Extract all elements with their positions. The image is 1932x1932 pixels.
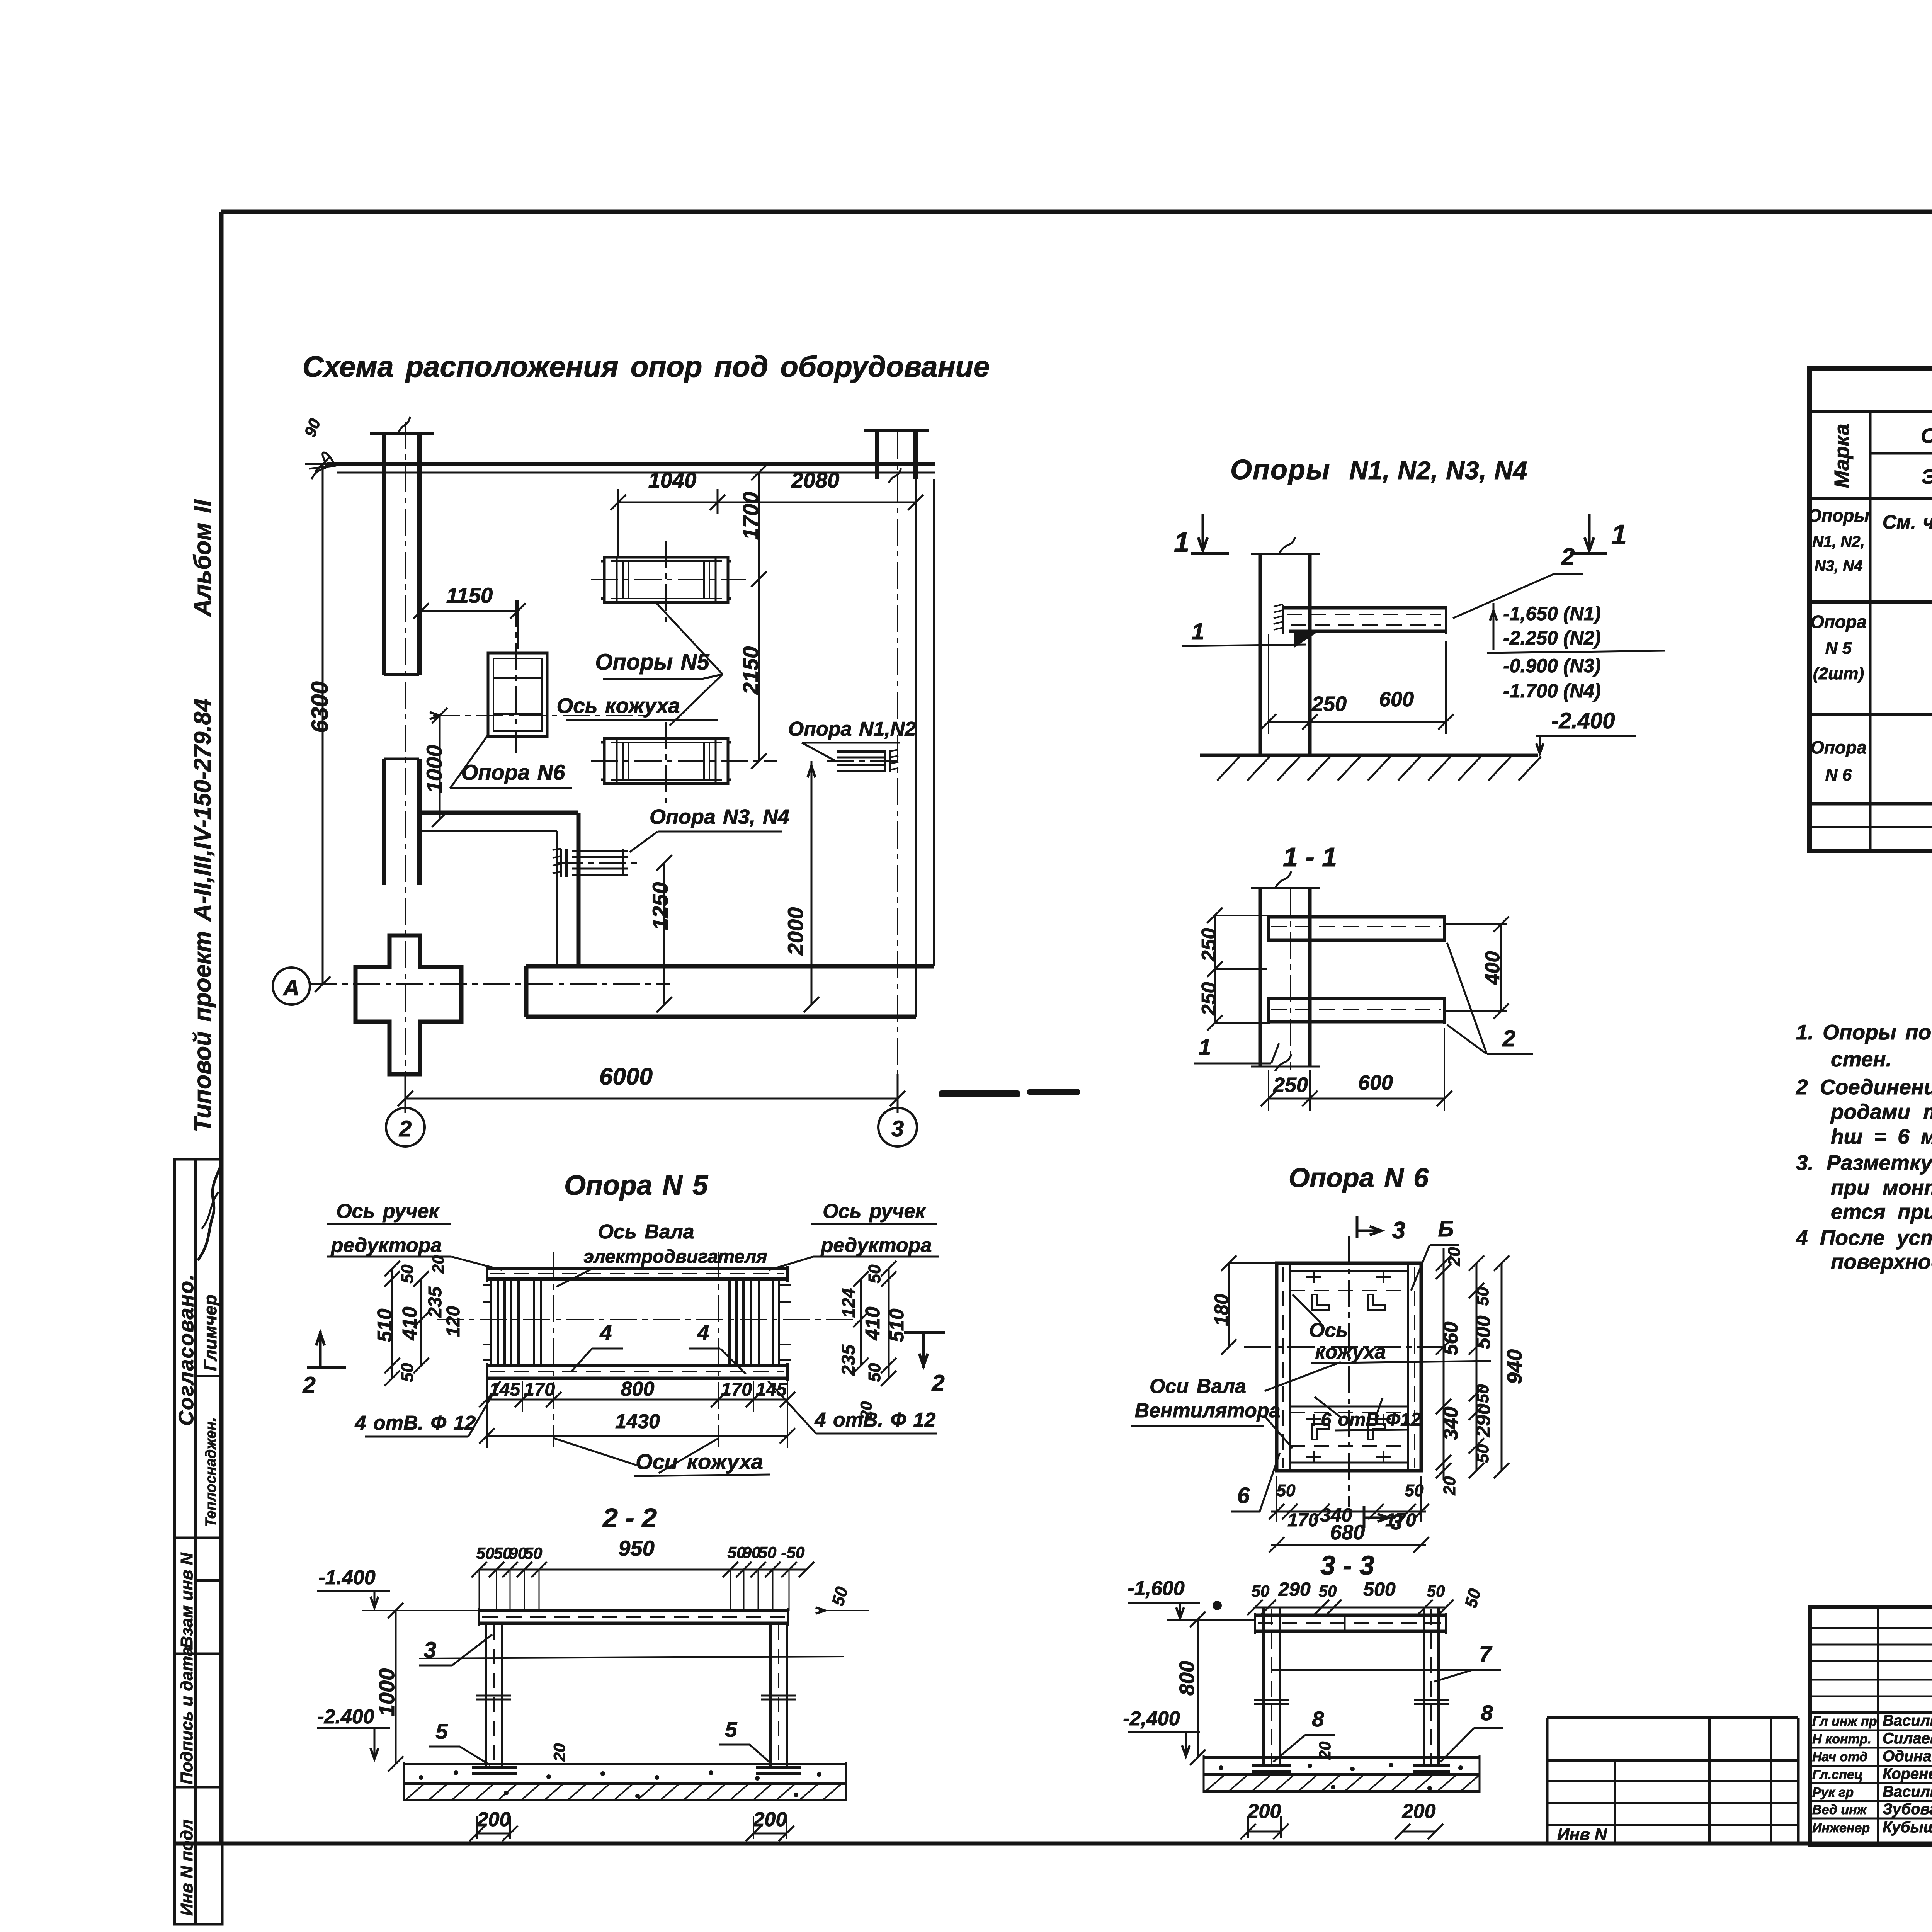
plan axis circle 2 — [386, 1108, 425, 1146]
plan dim 6000 horizontal — [405, 1098, 898, 1100]
sect3-3 hatch band — [1204, 1790, 1480, 1793]
svg-text:Марка: Марка — [1830, 424, 1854, 488]
svg-text:3 - 3: 3 - 3 — [1320, 1550, 1374, 1580]
svg-text:50: 50 — [398, 1264, 417, 1283]
svg-text:50: 50 — [1252, 1582, 1270, 1600]
svg-text:Гл.спец: Гл.спец — [1812, 1767, 1863, 1782]
plan left pilaster wall — [382, 434, 386, 675]
svg-text:Вед инж: Вед инж — [1812, 1803, 1867, 1817]
svg-text:См. чертеж: См. чертеж — [1883, 511, 1932, 533]
svg-text:N3, N4: N3, N4 — [1815, 558, 1863, 575]
svg-text:Опора N6: Опора N6 — [461, 760, 565, 784]
N6 section mark 3 bottom — [1363, 1506, 1366, 1528]
sect2-2 dim 200 left — [477, 1833, 510, 1835]
table outer border — [1810, 369, 1932, 851]
N5 right angle column — [728, 1279, 731, 1366]
sect2-2 hatch band — [404, 1799, 846, 1801]
svg-text:Гл инж пр: Гл инж пр — [1812, 1714, 1877, 1729]
svg-text:2150: 2150 — [738, 646, 763, 695]
svg-text:1 - 1: 1 - 1 — [1283, 842, 1337, 872]
sect1-1 center axis — [1290, 889, 1291, 1070]
table title row — [1810, 410, 1932, 413]
sect2-2 right leg — [769, 1623, 772, 1767]
svg-text:8: 8 — [1481, 1701, 1493, 1725]
N6 section mark 3 top — [1356, 1216, 1359, 1238]
svg-text:-2,400: -2,400 — [1123, 1708, 1180, 1730]
svg-text:Зубова: Зубова — [1883, 1801, 1932, 1818]
detail N1-4 wall — [1259, 554, 1262, 755]
svg-text:2 - 2: 2 - 2 — [602, 1503, 657, 1533]
svg-text:-2.250 (N2): -2.250 (N2) — [1503, 627, 1601, 649]
svg-text:170: 170 — [721, 1379, 752, 1400]
svg-text:Опоры: Опоры — [1808, 505, 1869, 526]
sect3-3 floor slab — [1204, 1756, 1480, 1759]
plan dim 1040 2080 — [618, 502, 916, 503]
detail N1-4 dim 250 600 — [1269, 721, 1446, 723]
svg-text:Опора N3, N4: Опора N3, N4 — [650, 805, 789, 828]
svg-text:Ось: Ось — [1309, 1319, 1348, 1342]
sect1-1 dims 250 250 — [1214, 915, 1216, 1023]
svg-text:Оси кожуха: Оси кожуха — [636, 1449, 763, 1474]
title block signature rows — [1810, 1730, 1932, 1731]
plan dim 1250 vertical — [663, 863, 665, 1005]
N6 top inner member — [1290, 1270, 1408, 1272]
svg-text:кожуха: кожуха — [1315, 1341, 1386, 1363]
svg-text:200: 200 — [477, 1808, 511, 1831]
svg-text:290: 290 — [1278, 1578, 1311, 1600]
svg-text:400: 400 — [1481, 951, 1504, 985]
svg-text:Рук гр: Рук гр — [1812, 1785, 1854, 1800]
svg-text:4 отВ. Ф 12: 4 отВ. Ф 12 — [355, 1412, 476, 1434]
svg-text:-2.400: -2.400 — [1551, 708, 1615, 733]
svg-text:800: 800 — [621, 1378, 655, 1400]
svg-text:3: 3 — [1390, 1510, 1402, 1534]
svg-text:поверхности окрасить масляно: поверхности окрасить масляной краской за… — [1831, 1250, 1932, 1274]
svg-text:Б: Б — [1438, 1216, 1454, 1242]
N6 dim 680 — [1271, 1544, 1426, 1546]
svg-text:редуктора: редуктора — [330, 1234, 442, 1257]
plan label Ось кожуха and axis — [433, 715, 647, 716]
svg-text:50: 50 — [1277, 1481, 1296, 1500]
svg-text:510: 510 — [886, 1309, 908, 1342]
plan fan support unit Опоры N5 lower — [604, 738, 728, 784]
svg-text:N 5: N 5 — [1825, 639, 1852, 658]
title block upper empty rows — [1810, 1627, 1932, 1629]
sect2-2 dim 200 right — [753, 1833, 786, 1835]
svg-text:4: 4 — [599, 1320, 612, 1345]
sect2-2 dim 1000 — [395, 1611, 397, 1764]
plan bracket Опора N3,N4 — [560, 849, 562, 877]
svg-text:1000: 1000 — [422, 745, 446, 793]
N5 unit top band — [487, 1267, 787, 1270]
N5 dims left stack — [391, 1269, 393, 1378]
svg-text:при монтаже оборудования . Д: при монтаже оборудования . Диаметр отвер… — [1831, 1175, 1932, 1199]
svg-text:1700: 1700 — [738, 492, 763, 540]
svg-text:6: 6 — [1237, 1483, 1250, 1508]
plan top wall lines — [327, 462, 935, 466]
plan axis circle 3 — [878, 1108, 917, 1146]
sect3-3 top dim row — [1255, 1607, 1446, 1609]
svg-text:20: 20 — [429, 1255, 447, 1274]
sheet frame border — [221, 210, 1932, 214]
svg-text:Инженер: Инженер — [1812, 1821, 1870, 1835]
plan axis circle A — [273, 968, 310, 1005]
svg-text:510: 510 — [374, 1309, 396, 1342]
svg-text:250: 250 — [1273, 1073, 1308, 1097]
plan dim 6300 vertical — [322, 464, 324, 984]
svg-text:4: 4 — [697, 1320, 709, 1345]
svg-text:50: 50 — [865, 1264, 884, 1283]
svg-text:Согласовано.: Согласовано. — [175, 1274, 198, 1426]
svg-text:170: 170 — [524, 1379, 555, 1400]
svg-text:940: 940 — [1503, 1349, 1526, 1384]
svg-text:8: 8 — [1312, 1707, 1324, 1731]
svg-text:200: 200 — [1247, 1800, 1281, 1823]
plan fan N5 upper axis — [591, 579, 746, 580]
svg-text:Эскиз: Эскиз — [1922, 465, 1932, 488]
plan left wall lower segment — [382, 759, 386, 885]
sect2-2 beam — [479, 1609, 788, 1612]
svg-text:(2шт): (2шт) — [1813, 664, 1864, 683]
plan axis line A horizontal — [310, 983, 670, 985]
svg-text:50: 50 — [1427, 1582, 1445, 1600]
plan fan support unit Опоры N5 upper — [604, 557, 728, 602]
svg-text:500: 500 — [1363, 1578, 1396, 1600]
svg-text:N1, N2, N3, N4: N1, N2, N3, N4 — [1349, 456, 1528, 485]
svg-text:500: 500 — [1472, 1316, 1495, 1349]
svg-text:50: 50 — [865, 1363, 884, 1382]
title block outer border — [1810, 1607, 1932, 1844]
svg-text:2000: 2000 — [783, 907, 808, 956]
svg-text:50: 50 — [524, 1544, 543, 1562]
sidebar box grid — [175, 1159, 222, 1924]
svg-text:950: 950 — [618, 1536, 654, 1560]
svg-text:Одинаков: Одинаков — [1883, 1748, 1932, 1765]
svg-text:680: 680 — [1330, 1521, 1365, 1544]
plan dim 1150 — [421, 610, 518, 612]
sect1-1 dim 400 — [1500, 924, 1502, 1011]
plan right pilaster wall — [875, 430, 879, 479]
plan unit N6 axes — [515, 600, 517, 753]
N6 bottom dims — [1271, 1511, 1426, 1513]
svg-text:6300: 6300 — [307, 681, 333, 733]
svg-text:20: 20 — [1440, 1476, 1459, 1495]
plan fan N5 lower axis — [591, 760, 777, 762]
sect2-2 base plates — [472, 1766, 517, 1769]
N6 bottom inner member — [1290, 1462, 1408, 1464]
ink smear mark — [939, 1090, 1020, 1097]
svg-text:Опора N1,N2: Опора N1,N2 — [788, 718, 916, 740]
plan unit Опора N6 box — [488, 653, 547, 736]
detail N1-4 bracket channel — [1283, 606, 1446, 610]
svg-text:Типовой проект А-ІІ,ІІІ,ІV-1: Типовой проект А-ІІ,ІІІ,ІV-150-279.84 — [189, 698, 216, 1132]
svg-text:290: 290 — [1472, 1404, 1495, 1438]
N6 box outline — [1277, 1263, 1421, 1471]
svg-text:3: 3 — [891, 1116, 904, 1141]
svg-text:-50: -50 — [781, 1543, 805, 1561]
plan axis line 3 vertical — [897, 432, 898, 1106]
sect2-2 floor slab — [404, 1763, 846, 1765]
N5 centerlines — [553, 1252, 554, 1447]
svg-text:стен.: стен. — [1831, 1047, 1892, 1071]
svg-text:N1, N2,: N1, N2, — [1812, 533, 1865, 550]
svg-text:электродвигателя: электродвигателя — [583, 1247, 767, 1267]
svg-text:Опора: Опора — [1810, 737, 1867, 757]
N5 bottom dim row 2 — [487, 1435, 787, 1437]
svg-text:Оси Вала: Оси Вала — [1150, 1375, 1246, 1398]
svg-text:170: 170 — [1287, 1510, 1318, 1531]
svg-text:340: 340 — [1440, 1407, 1462, 1440]
svg-text:7: 7 — [1479, 1641, 1493, 1667]
svg-text:Опора N 6: Опора N 6 — [1289, 1163, 1429, 1193]
N5 bottom dim row 1 — [487, 1399, 787, 1401]
svg-text:50: 50 — [1473, 1287, 1492, 1306]
svg-text:600: 600 — [1379, 688, 1414, 711]
svg-text:2: 2 — [1502, 1026, 1515, 1051]
svg-text:-2.400: -2.400 — [317, 1706, 374, 1728]
svg-text:180: 180 — [1211, 1294, 1232, 1326]
svg-text:410: 410 — [862, 1307, 884, 1341]
svg-text:6000: 6000 — [599, 1063, 653, 1090]
svg-text:5: 5 — [435, 1719, 448, 1743]
svg-text:1: 1 — [1199, 1035, 1211, 1060]
svg-text:1040: 1040 — [648, 468, 697, 492]
svg-text:1150: 1150 — [446, 583, 493, 607]
svg-text:90: 90 — [743, 1543, 761, 1561]
svg-text:Кубышкина: Кубышкина — [1883, 1819, 1932, 1836]
svg-text:Опоры N5: Опоры N5 — [595, 650, 709, 675]
table header columns — [1869, 411, 1872, 851]
svg-text:Инв N подл: Инв N подл — [177, 1820, 196, 1916]
svg-text:Кореневский: Кореневский — [1883, 1765, 1932, 1782]
svg-text:4 После установки опор под: 4 После установки опор под вентиляторы м… — [1796, 1226, 1932, 1250]
svg-text:Глимчер: Глимчер — [200, 1294, 220, 1371]
svg-text:1000: 1000 — [374, 1668, 399, 1717]
svg-text:1: 1 — [1611, 519, 1627, 550]
N6 axes — [1348, 1236, 1350, 1507]
svg-text:Силаева: Силаева — [1883, 1730, 1932, 1747]
svg-text:ется при получении оборудов: ется при получении оборудования. — [1831, 1200, 1932, 1224]
plan axis line 2 vertical — [405, 422, 406, 1106]
svg-text:Схема расположения опор под: Схема расположения опор под оборудование — [303, 350, 990, 383]
svg-text:Нач отд: Нач отд — [1812, 1750, 1867, 1764]
plan dim 1000 vertical — [439, 716, 441, 819]
svg-text:-1,600: -1,600 — [1128, 1577, 1185, 1600]
svg-text:20: 20 — [1316, 1742, 1334, 1760]
elevation tick — [1493, 603, 1495, 650]
N5 unit bottom band — [487, 1364, 787, 1367]
svg-text:50: 50 — [1473, 1384, 1492, 1403]
svg-text:2: 2 — [302, 1372, 315, 1398]
svg-text:Подпись и дата: Подпись и дата — [177, 1646, 196, 1784]
svg-text:Васильева: Васильева — [1883, 1783, 1932, 1800]
svg-text:-1.700 (N4): -1.700 (N4) — [1503, 680, 1601, 702]
svg-text:250: 250 — [1198, 982, 1220, 1016]
svg-text:20: 20 — [1445, 1247, 1464, 1266]
sect2-2 top dim row — [479, 1569, 806, 1571]
svg-text:145: 145 — [489, 1379, 520, 1400]
sect3-3 concrete dots — [1219, 1765, 1223, 1770]
N5 flange ticks — [483, 1284, 491, 1286]
svg-text:Ось Вала: Ось Вала — [598, 1221, 694, 1243]
svg-text:5: 5 — [725, 1717, 737, 1742]
N6 right dims — [1443, 1248, 1445, 1480]
svg-text:2080: 2080 — [791, 468, 840, 492]
N5 dims right stack — [888, 1269, 890, 1378]
sect1-1 dims 250 600 bottom — [1269, 1098, 1444, 1100]
svg-text:3: 3 — [1392, 1217, 1405, 1244]
N6 side channels — [1289, 1263, 1291, 1471]
svg-text:20: 20 — [550, 1743, 568, 1762]
svg-text:1. Опоры под вентиляторы ус: 1. Опоры под вентиляторы устанавливать п… — [1796, 1020, 1932, 1044]
svg-text:С е ч е н и я: С е ч е н и я — [1921, 424, 1932, 447]
sect3-3 dim 800 — [1197, 1619, 1199, 1757]
N6 left dim 180 — [1228, 1263, 1230, 1347]
svg-text:Теплоснаджен.: Теплоснаджен. — [203, 1417, 219, 1527]
plan bracket Опора N1,N2 at right wall — [837, 750, 885, 753]
sect3-3 base plates — [1252, 1764, 1291, 1767]
svg-text:2: 2 — [931, 1370, 944, 1396]
N6 mid member — [1290, 1406, 1408, 1408]
svg-text:Взам инв N: Взам инв N — [177, 1552, 196, 1648]
plan bottom wall band — [526, 964, 934, 969]
sect2-2 concrete dots — [419, 1775, 423, 1780]
svg-text:800: 800 — [1175, 1661, 1199, 1696]
svg-text:600: 600 — [1358, 1071, 1393, 1094]
svg-text:50: 50 — [759, 1543, 777, 1561]
plan dim 1700 vertical — [758, 473, 760, 579]
svg-text:Н контр.: Н контр. — [1812, 1732, 1871, 1747]
svg-text:200: 200 — [1402, 1800, 1436, 1823]
svg-text:2 Соединение элементов опор: 2 Соединение элементов опор производить … — [1796, 1075, 1932, 1099]
svg-text:Ось ручек: Ось ручек — [336, 1200, 440, 1223]
title block signature grid verticals — [1877, 1607, 1879, 1844]
svg-text:50: 50 — [1319, 1582, 1337, 1600]
svg-text:200: 200 — [753, 1808, 787, 1831]
plan dim 2000 vertical — [811, 761, 813, 1005]
plan interior L-wall — [420, 811, 578, 815]
svg-text:Инв N: Инв N — [1557, 1825, 1607, 1844]
sect2-2 left leg — [485, 1623, 487, 1767]
svg-text:120: 120 — [443, 1306, 464, 1337]
sect3-3 legs — [1262, 1607, 1265, 1766]
svg-text:Опоры: Опоры — [1230, 454, 1330, 485]
svg-text:1250: 1250 — [648, 882, 672, 930]
svg-text:Опора: Опора — [1810, 612, 1867, 632]
svg-text:Ось ручек: Ось ручек — [823, 1200, 926, 1223]
plan right wall lines — [915, 479, 917, 1017]
svg-text:50: 50 — [476, 1544, 495, 1562]
svg-text:1: 1 — [1191, 619, 1204, 645]
svg-text:50: 50 — [1473, 1444, 1492, 1463]
svg-text:N 6: N 6 — [1825, 765, 1852, 784]
svg-text:560: 560 — [1440, 1322, 1462, 1355]
plan top wall left break squiggle — [311, 452, 333, 479]
N5 section marks 2-2 — [319, 1331, 322, 1368]
plan bottom-left wall cross — [355, 935, 461, 1074]
svg-text:Альбом ІІ: Альбом ІІ — [189, 499, 216, 617]
svg-text:3. Разметку и сверление отве: 3. Разметку и сверление отверстий произв… — [1796, 1151, 1932, 1175]
svg-text:редуктора: редуктора — [820, 1234, 932, 1257]
plan dim 2150 vertical — [758, 579, 760, 761]
sidebar signature squiggle — [198, 1165, 221, 1260]
svg-text:250: 250 — [1311, 692, 1347, 716]
svg-text:1430: 1430 — [615, 1410, 660, 1433]
svg-text:Вентилятора: Вентилятора — [1135, 1400, 1281, 1422]
N5 left angle column — [490, 1279, 492, 1366]
svg-text:Васильев: Васильев — [1883, 1712, 1932, 1729]
svg-text:родами типа Э-42 ГОСТ 9467-: родами типа Э-42 ГОСТ 9467-75. Сварные ш… — [1830, 1100, 1932, 1124]
svg-text:-0.900 (N3): -0.900 (N3) — [1503, 655, 1601, 677]
svg-text:124: 124 — [838, 1288, 859, 1318]
svg-text:250: 250 — [1198, 928, 1220, 962]
svg-text:hш = 6 мм, по ГОСТ 5264-80: hш = 6 мм, по ГОСТ 5264-80 — [1831, 1124, 1932, 1148]
detail N1-4 ground line and hatching — [1200, 754, 1538, 757]
svg-text:Ось кожуха: Ось кожуха — [557, 694, 680, 718]
sect3-3 dims 200 — [1248, 1831, 1281, 1833]
svg-text:А: А — [282, 975, 299, 1000]
svg-text:-1,650 (N1): -1,650 (N1) — [1503, 603, 1601, 624]
svg-text:4 отВ. Ф 12: 4 отВ. Ф 12 — [815, 1409, 936, 1431]
sect1-1 wall — [1259, 888, 1262, 1066]
svg-text:2: 2 — [1561, 544, 1575, 570]
svg-text:2: 2 — [399, 1116, 412, 1141]
svg-text:1: 1 — [1174, 527, 1189, 558]
svg-text:Опора N 5: Опора N 5 — [564, 1170, 708, 1201]
sect1-1 channel arms — [1269, 915, 1444, 919]
sect3-3 beam — [1255, 1614, 1446, 1617]
svg-text:-1.400: -1.400 — [318, 1566, 376, 1589]
inventory small table — [1547, 1716, 1798, 1719]
table header rows — [1870, 452, 1932, 455]
